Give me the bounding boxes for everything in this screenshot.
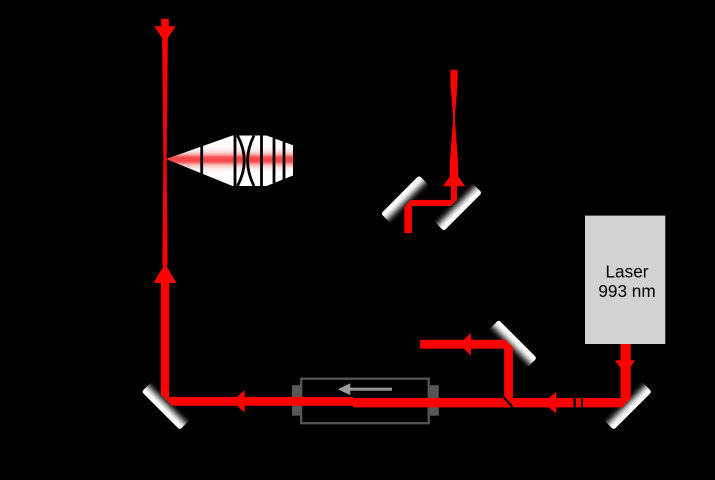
amplifier lens arc left-bowed bbox=[248, 136, 254, 187]
optical isolator body bbox=[292, 379, 439, 424]
amplifier facet line 4 bbox=[273, 138, 276, 183]
focusing bowtie beam above arrowhead bbox=[450, 70, 458, 176]
up arrowhead on left beam bbox=[154, 264, 177, 284]
laser output beam down bbox=[621, 344, 631, 398]
left arrowhead on bottom beam bbox=[232, 390, 244, 413]
svg-text:993 nm: 993 nm bbox=[598, 281, 655, 301]
amplifier facet line 5 bbox=[283, 142, 286, 180]
svg-text:Laser: Laser bbox=[606, 261, 649, 281]
isolator direction arrow bbox=[338, 383, 392, 395]
amplifier lens arc right-bowed bbox=[238, 136, 245, 187]
mirror M4 steering left bbox=[381, 175, 430, 224]
Z beam between steering mirrors bbox=[404, 186, 457, 234]
left arrowhead on pickoff beam bbox=[459, 333, 471, 356]
mirror M3 bottom-right bbox=[603, 381, 652, 430]
laser box bbox=[585, 216, 665, 344]
mirror M5 steering right bbox=[433, 182, 482, 231]
amplifier facet line 2 bbox=[234, 136, 237, 187]
amplifier facet line 3 bbox=[260, 136, 263, 187]
beam break symbol (double gap) bbox=[574, 397, 584, 409]
up arrowhead on vertical reference beam bbox=[443, 171, 465, 187]
tapered amplifier body bbox=[166, 136, 293, 187]
down arrowhead on output beam bbox=[154, 26, 175, 42]
beam top stub above down-arrow bbox=[161, 19, 169, 27]
mirror M2 pickoff splitter bbox=[488, 320, 537, 369]
down arrowhead on laser beam bbox=[615, 360, 635, 373]
left arrowhead near break symbol bbox=[543, 392, 556, 414]
pickoff beam: horizontal arm and drop to main line bbox=[420, 340, 513, 408]
junction diagonal separator bbox=[504, 397, 514, 408]
mirror M1 bottom-left bbox=[142, 381, 191, 430]
amplifier facet line 1 bbox=[200, 143, 203, 176]
main beam: left vertical stem + bottom horizontal run with mitred corners bbox=[161, 283, 631, 407]
converging beam segment through amplifier focus bbox=[162, 37, 168, 266]
